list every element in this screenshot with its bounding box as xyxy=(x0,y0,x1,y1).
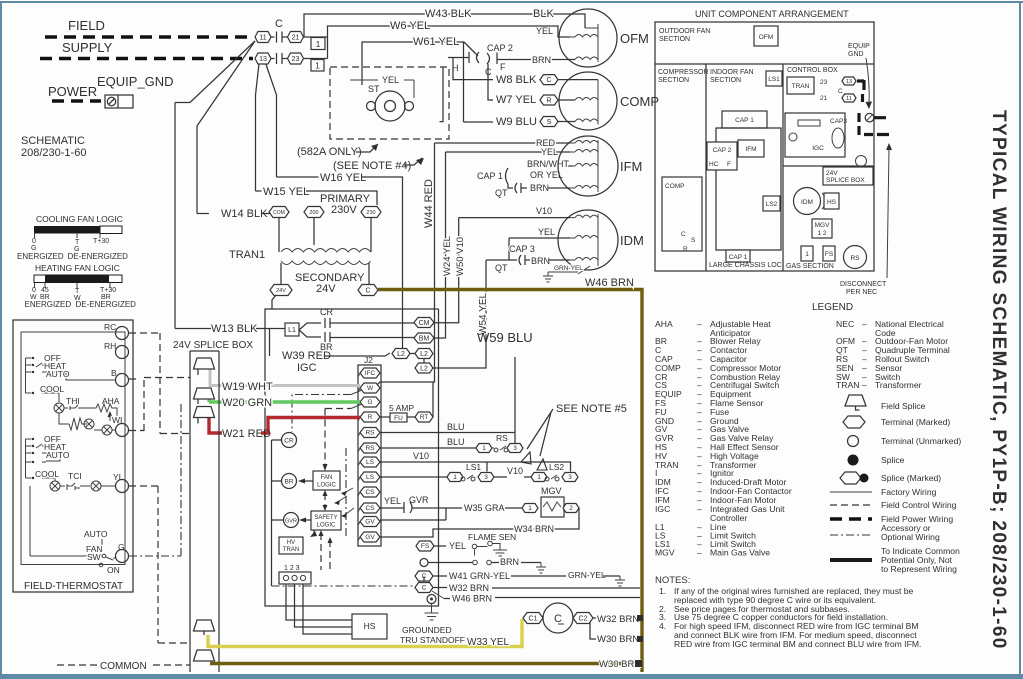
RS circle (unit) xyxy=(844,246,867,269)
svg-text:200: 200 xyxy=(309,210,318,216)
wire W14 BLK xyxy=(197,213,209,215)
wire: 13 to W15 riser xyxy=(256,64,260,192)
svg-text:W59 BLU: W59 BLU xyxy=(477,330,533,345)
svg-text:COMP: COMP xyxy=(665,183,685,190)
field splice 5 (common) xyxy=(194,650,215,661)
terminal C (secondary) xyxy=(358,285,378,296)
svg-text:GRN-YEL: GRN-YEL xyxy=(568,570,606,580)
wire RED lead IFM xyxy=(435,142,571,144)
svg-text:W14 BLK: W14 BLK xyxy=(221,208,268,220)
svg-text:R: R xyxy=(368,414,373,421)
svg-text:RT: RT xyxy=(420,414,429,421)
svg-text:W33 YEL: W33 YEL xyxy=(467,637,509,648)
svg-text:HV: HV xyxy=(287,540,295,546)
arrow up at WI xyxy=(109,413,111,421)
wire V10 mid xyxy=(494,476,507,478)
terminal 1 (LS1) xyxy=(447,473,463,482)
svg-text:C1: C1 xyxy=(529,615,538,622)
svg-text:TRAN: TRAN xyxy=(283,547,299,553)
svg-text:W32 BRN: W32 BRN xyxy=(449,583,489,593)
svg-text:AUTO: AUTO xyxy=(46,369,70,379)
dashed box 582A (start thermistor) xyxy=(330,67,449,139)
svg-text:–: – xyxy=(697,548,702,558)
svg-text:RS: RS xyxy=(365,430,375,437)
legend symbol: factory wiring xyxy=(830,491,872,493)
page border top xyxy=(0,1,1023,3)
svg-text:C: C xyxy=(838,88,843,95)
terminal WI circle xyxy=(116,424,129,437)
arrow SAFETY to GVR xyxy=(302,519,311,521)
control box outline xyxy=(265,309,439,606)
outdoor fan motor OFM xyxy=(559,9,617,67)
section divider horizontal xyxy=(655,63,874,65)
svg-text:DE-ENERGIZED: DE-ENERGIZED xyxy=(68,252,129,261)
svg-text:BRN/WHT: BRN/WHT xyxy=(527,159,569,169)
arrows into SAFETY right xyxy=(341,513,347,518)
svg-text:FU: FU xyxy=(394,415,403,422)
terminal G xyxy=(358,397,380,407)
svg-text:IDM: IDM xyxy=(801,199,813,206)
svg-text:INDOOR FAN: INDOOR FAN xyxy=(710,69,754,76)
svg-text:C: C xyxy=(554,613,562,625)
svg-text:W30 BRN: W30 BRN xyxy=(597,634,639,645)
terminal RS1 xyxy=(358,428,380,438)
svg-text:TCI: TCI xyxy=(68,471,82,481)
svg-text:23: 23 xyxy=(820,79,828,86)
svg-text:LS: LS xyxy=(366,474,375,481)
svg-text:YEL: YEL xyxy=(538,227,555,237)
terminal 2 (MGV) xyxy=(563,504,579,513)
terminal C (W41) xyxy=(415,571,433,581)
terminal L2 c xyxy=(415,363,433,373)
svg-text:208/230-1-60: 208/230-1-60 xyxy=(21,147,86,159)
combustion relay CR xyxy=(282,433,297,448)
OFM brn lead xyxy=(497,59,575,61)
svg-text:F: F xyxy=(727,161,731,168)
LS1 box xyxy=(766,71,782,86)
X-circle mid xyxy=(84,419,94,429)
svg-text:J2: J2 xyxy=(364,355,373,365)
wire W43 BLK xyxy=(304,14,585,37)
svg-text:23: 23 xyxy=(292,56,300,63)
svg-text:COMMON: COMMON xyxy=(100,661,147,672)
wire: diagonal 11 to W13 riser xyxy=(175,41,255,103)
svg-text:GVR: GVR xyxy=(409,495,429,505)
svg-text:GV: GV xyxy=(365,534,375,541)
svg-text:CAP 1: CAP 1 xyxy=(477,171,503,181)
svg-text:W46 BRN: W46 BRN xyxy=(452,594,492,604)
terminal L2 a xyxy=(392,349,410,359)
flame sensor FS row xyxy=(416,541,434,551)
svg-text:TRAN: TRAN xyxy=(792,83,810,90)
svg-text:11: 11 xyxy=(846,96,852,102)
svg-text:T: T xyxy=(75,239,80,246)
svg-text:COOL: COOL xyxy=(35,469,59,479)
fuse block 1 (top) xyxy=(311,38,325,50)
wires 123 to HS xyxy=(286,584,352,634)
svg-text:Field Splice: Field Splice xyxy=(881,401,926,411)
svg-text:W6 YEL: W6 YEL xyxy=(390,20,430,32)
svg-text:T: T xyxy=(75,288,80,295)
svg-text:W9 BLU: W9 BLU xyxy=(496,116,537,128)
dashed links 123 up to SAFETY xyxy=(320,533,322,570)
wire W30 BRN at C2 xyxy=(590,622,596,639)
equipment ground box xyxy=(105,95,133,108)
svg-text:W44 RED: W44 RED xyxy=(423,179,435,228)
svg-text:PER NEC: PER NEC xyxy=(846,289,877,296)
field splice 3 xyxy=(194,407,215,424)
BRN row with switch xyxy=(420,559,428,567)
svg-text:V10: V10 xyxy=(507,466,523,476)
COMP box (unit) xyxy=(662,177,702,251)
indoor fan housing box xyxy=(716,128,781,250)
svg-text:EQUIP_GND: EQUIP_GND xyxy=(97,74,174,89)
ground terminal W46 xyxy=(432,591,444,599)
X-circle YI branch xyxy=(91,481,101,491)
terminal 1 (MGV) xyxy=(522,504,538,513)
svg-text:LOGIC: LOGIC xyxy=(317,483,336,489)
svg-text:W32 BRN: W32 BRN xyxy=(597,614,639,625)
svg-text:DE-ENERGIZED: DE-ENERGIZED xyxy=(76,300,137,309)
induced draft motor IDM xyxy=(558,210,618,270)
svg-text:COMPRESSOR: COMPRESSOR xyxy=(658,69,709,76)
svg-text:FS: FS xyxy=(825,251,834,258)
svg-text:W24 YEL: W24 YEL xyxy=(442,236,453,276)
svg-text:CR: CR xyxy=(320,307,333,317)
TRAN box xyxy=(787,77,814,94)
terminal 21 xyxy=(288,32,304,43)
wire LS1 V10 row xyxy=(380,462,571,472)
svg-text:C: C xyxy=(546,77,551,84)
svg-text:to Represent Wiring: to Represent Wiring xyxy=(881,564,957,574)
svg-text:W13 BLK: W13 BLK xyxy=(211,323,258,335)
svg-text:GVR: GVR xyxy=(285,519,297,525)
svg-text:G: G xyxy=(31,245,36,252)
thick wire W46 BRN (common potential) xyxy=(378,290,642,673)
svg-text:1.: 1. xyxy=(659,586,666,596)
terminal 13 xyxy=(255,53,271,64)
terminal 11 xyxy=(255,32,271,43)
terminal W xyxy=(358,383,380,393)
section divider indoor/control xyxy=(782,64,784,271)
svg-text:OFM: OFM xyxy=(620,31,649,46)
svg-text:YEL: YEL xyxy=(384,496,401,506)
svg-text:W21 RED: W21 RED xyxy=(222,428,271,440)
wire BRN lead xyxy=(548,187,570,189)
wire GV1 row xyxy=(380,519,446,521)
svg-text:BLU: BLU xyxy=(447,437,465,447)
svg-text:LEGEND: LEGEND xyxy=(812,302,853,313)
MGV box (unit) xyxy=(812,219,832,238)
svg-text:FIELD-THERMOSTAT: FIELD-THERMOSTAT xyxy=(24,581,123,592)
svg-text:–: – xyxy=(862,380,867,390)
terminal 23 xyxy=(288,53,304,64)
svg-text:21: 21 xyxy=(292,35,300,42)
svg-text:(582A ONLY): (582A ONLY) xyxy=(297,146,362,158)
wire W32 BRN at C2 xyxy=(593,617,596,619)
divider control/gas xyxy=(783,165,874,167)
capacitor CAP 2 xyxy=(448,52,497,64)
thick wire W30 BRN (common potential) xyxy=(210,662,634,665)
terminal COM xyxy=(269,207,289,218)
svg-text:HS: HS xyxy=(364,621,376,631)
X-circle WI xyxy=(102,425,112,435)
svg-text:ON: ON xyxy=(107,565,120,575)
wire to W39 RED xyxy=(269,329,271,357)
svg-text:S: S xyxy=(547,119,552,126)
svg-text:FS: FS xyxy=(421,543,430,550)
IFM box xyxy=(738,140,764,157)
svg-text:FLAME SEN: FLAME SEN xyxy=(468,532,516,542)
terminal R xyxy=(540,95,558,105)
svg-text:Terminal (Marked): Terminal (Marked) xyxy=(881,417,950,427)
svg-text:COMP: COMP xyxy=(620,94,659,109)
svg-text:RS: RS xyxy=(496,433,508,443)
svg-text:R: R xyxy=(683,246,688,253)
svg-text:W: W xyxy=(367,385,374,392)
svg-text:COOL: COOL xyxy=(40,384,64,394)
wire: W13 riser vertical xyxy=(174,103,176,329)
dashed link FAN-SAFETY xyxy=(324,493,326,508)
svg-text:1 2 3: 1 2 3 xyxy=(284,565,300,572)
HS circle-box xyxy=(822,193,825,209)
svg-text:OFM: OFM xyxy=(759,34,773,41)
terminal 3 (LS2) xyxy=(562,473,578,482)
svg-text:0: 0 xyxy=(32,238,36,245)
terminal LS1 xyxy=(358,457,380,467)
field power wire L2 (heavy dashed) xyxy=(40,57,253,61)
SAFETY LOGIC box xyxy=(311,511,341,530)
legend symbol: splice xyxy=(848,455,859,466)
wire L2a-L2b xyxy=(410,354,424,364)
fuse block 1 (bottom) xyxy=(311,60,324,72)
svg-text:Main Gas Valve: Main Gas Valve xyxy=(710,548,770,558)
legend column 2 xyxy=(836,319,950,390)
svg-text:W35 GRA: W35 GRA xyxy=(464,503,505,513)
dashed SAFETY down to HV TRAN xyxy=(313,530,315,535)
svg-text:YEL: YEL xyxy=(382,75,399,85)
field splice 4 (yellow) xyxy=(194,620,215,635)
small circle below IGC xyxy=(856,156,867,167)
wire COOL to THI xyxy=(46,393,59,402)
svg-text:230V: 230V xyxy=(331,204,357,216)
terminal CS2 xyxy=(358,503,380,513)
yellow wire W33 YEL xyxy=(208,619,522,647)
terminal BM xyxy=(414,333,434,343)
legend symbol: common potential xyxy=(830,558,872,562)
wire LS2 row xyxy=(380,476,447,478)
svg-text:C: C xyxy=(422,585,427,592)
svg-text:SECTION: SECTION xyxy=(710,77,741,84)
svg-text:24V: 24V xyxy=(316,283,336,295)
svg-text:W7 YEL: W7 YEL xyxy=(496,94,536,106)
power heavy dashed stub xyxy=(52,99,101,103)
svg-text:BLU: BLU xyxy=(447,422,465,432)
dash-dot link IFC to CR xyxy=(292,395,351,433)
svg-text:QT: QT xyxy=(495,188,508,198)
legend symbol: splice marked xyxy=(840,472,861,484)
svg-text:24V: 24V xyxy=(826,170,838,177)
svg-text:21: 21 xyxy=(820,95,828,102)
capacitor terminal C1 xyxy=(523,613,543,624)
svg-text:NOTES:: NOTES: xyxy=(655,575,690,586)
svg-text:45: 45 xyxy=(41,287,49,294)
svg-text:MGV: MGV xyxy=(815,222,830,229)
svg-text:UNIT COMPONENT ARRANGEMENT: UNIT COMPONENT ARRANGEMENT xyxy=(695,9,849,19)
svg-text:CAP 2: CAP 2 xyxy=(487,43,513,53)
svg-text:BRN: BRN xyxy=(532,55,551,65)
terminal LS2 xyxy=(358,472,380,482)
ST box internal lead xyxy=(440,67,444,122)
svg-text:CAP 3: CAP 3 xyxy=(509,244,535,254)
svg-text:YEL: YEL xyxy=(536,26,553,36)
terminal CM xyxy=(414,318,434,328)
wire BRN lead idm xyxy=(548,259,570,261)
svg-text:SEE NOTE #5: SEE NOTE #5 xyxy=(556,403,627,415)
svg-text:1: 1 xyxy=(537,474,541,481)
OFM box xyxy=(754,26,778,46)
svg-text:TRU STANDOFF: TRU STANDOFF xyxy=(400,635,465,645)
dashed RC to splice xyxy=(129,333,190,434)
IDM circle xyxy=(794,188,821,215)
wire W59 BLU to RS3 xyxy=(514,442,516,443)
gas valve relay GVR coil xyxy=(284,513,299,528)
svg-text:CAP3: CAP3 xyxy=(830,118,847,125)
svg-text:BR: BR xyxy=(284,479,293,486)
terminal GV1 xyxy=(358,517,380,527)
lead 24V into control box xyxy=(272,295,276,309)
svg-text:BM: BM xyxy=(419,335,430,342)
page border bottom xyxy=(0,674,1023,679)
svg-text:LS1: LS1 xyxy=(768,76,780,83)
svg-text:DISCONNECT: DISCONNECT xyxy=(840,281,887,288)
legend symbol: field power wiring xyxy=(830,517,872,521)
svg-text:Field Control Wiring: Field Control Wiring xyxy=(881,500,957,510)
splice box column xyxy=(190,351,219,672)
wire W8 BLK xyxy=(453,58,493,80)
wire RS1 BLU row xyxy=(380,433,515,443)
wire W13 BLK xyxy=(175,328,211,330)
terminal RT xyxy=(415,412,433,422)
wire YEL lead IDM xyxy=(509,238,570,260)
wire W7 YEL xyxy=(488,64,493,100)
wire W24 YEL riser xyxy=(432,152,446,338)
svg-text:IDM: IDM xyxy=(620,233,644,248)
svg-text:HS: HS xyxy=(827,199,837,206)
LS2 box xyxy=(763,196,780,211)
svg-text:LS1: LS1 xyxy=(466,462,481,472)
svg-text:IFC: IFC xyxy=(365,370,376,377)
contactor contact C (11-21) xyxy=(271,32,288,43)
svg-text:T+30: T+30 xyxy=(100,287,116,294)
legend symbol: field splice xyxy=(845,395,866,410)
primary coil xyxy=(281,249,371,253)
svg-text:LOGIC: LOGIC xyxy=(317,523,336,529)
wire W9 BLU xyxy=(464,121,494,123)
system switch cooling: OFF HEAT AUTO COOL xyxy=(26,358,32,393)
svg-text:W19 WHT: W19 WHT xyxy=(222,381,273,393)
svg-text:–: – xyxy=(862,319,867,329)
wire W20 GRN xyxy=(209,399,360,402)
svg-text:G: G xyxy=(367,399,372,406)
svg-text:Transformer: Transformer xyxy=(875,380,922,390)
svg-text:L2: L2 xyxy=(420,351,428,358)
svg-text:1: 1 xyxy=(805,251,809,258)
gnd screw circle xyxy=(865,113,874,122)
dashed WI to splice xyxy=(129,378,144,432)
svg-text:LS2: LS2 xyxy=(549,462,564,472)
svg-text:SCHEMATIC: SCHEMATIC xyxy=(21,135,85,147)
run capacitor C xyxy=(543,603,573,633)
svg-text:V10: V10 xyxy=(413,451,429,461)
wire YI down to fan sw xyxy=(67,486,96,491)
terminal 1 (LS2) xyxy=(531,473,547,482)
unit outer box xyxy=(655,22,874,271)
wire W6 YEL xyxy=(328,26,571,59)
IGC box xyxy=(785,113,845,157)
svg-text:ENERGIZED: ENERGIZED xyxy=(25,300,72,309)
svg-text:13: 13 xyxy=(846,79,852,85)
wire: W14 riser vertical xyxy=(196,126,198,214)
svg-text:YEL: YEL xyxy=(541,147,558,157)
indoor fan motor IFM xyxy=(558,136,618,196)
svg-text:W54 YEL: W54 YEL xyxy=(478,293,489,335)
svg-text:SECTION: SECTION xyxy=(659,36,690,43)
legend symbol: accessory wiring xyxy=(830,534,872,536)
ignitor 1 box xyxy=(801,246,813,261)
svg-text:L2: L2 xyxy=(397,351,405,358)
wire RS2 BLU row xyxy=(380,447,476,449)
svg-text:IFM: IFM xyxy=(620,159,642,174)
legend symbol: field control wiring xyxy=(830,504,872,506)
svg-text:C: C xyxy=(275,18,283,30)
HV TRAN box xyxy=(279,537,303,554)
svg-text:COM: COM xyxy=(273,210,285,216)
svg-text:W20 GRN: W20 GRN xyxy=(222,397,272,409)
arrow FAN to BR xyxy=(302,480,313,482)
svg-text:SPLICE BOX: SPLICE BOX xyxy=(826,177,865,184)
svg-text:GROUNDED: GROUNDED xyxy=(402,625,452,635)
wire RT riser xyxy=(432,382,434,417)
svg-text:QT: QT xyxy=(495,263,508,273)
svg-text:GND: GND xyxy=(848,51,864,58)
svg-text:W41 GRN-YEL: W41 GRN-YEL xyxy=(449,571,510,581)
svg-text:BR: BR xyxy=(320,342,333,352)
wire W50 V10 riser xyxy=(432,218,459,323)
svg-text:230: 230 xyxy=(366,210,375,216)
FS box (unit) xyxy=(823,246,835,261)
svg-text:Optional Wiring: Optional Wiring xyxy=(881,532,940,542)
secondary coil xyxy=(281,261,371,265)
compressor motor COMP xyxy=(559,72,617,130)
svg-text:R: R xyxy=(546,97,551,104)
blower relay BR xyxy=(282,474,297,489)
svg-text:BRN: BRN xyxy=(530,183,549,193)
svg-text:C: C xyxy=(681,231,686,238)
svg-text:0: 0 xyxy=(32,287,36,294)
page border right xyxy=(1019,1,1021,674)
svg-text:SAFETY: SAFETY xyxy=(314,515,337,521)
svg-text:CONTROL BOX: CONTROL BOX xyxy=(787,67,838,74)
field thermostat outer box xyxy=(13,320,133,592)
terminal IFC xyxy=(358,368,380,378)
wire: diagonal 11 to W14 riser xyxy=(197,41,255,126)
dash-dot G accessory xyxy=(129,404,181,556)
svg-text:FAN: FAN xyxy=(321,475,333,481)
svg-text:THI: THI xyxy=(66,396,80,406)
legend symbol: terminal marked xyxy=(843,416,865,428)
dashed B to splice xyxy=(129,378,190,380)
